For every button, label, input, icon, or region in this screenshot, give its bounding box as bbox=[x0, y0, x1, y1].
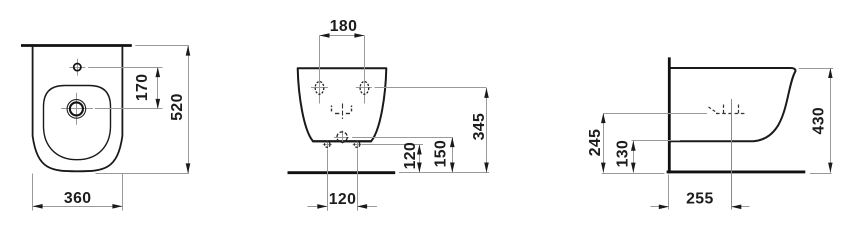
basin inner outline bbox=[44, 86, 111, 160]
floor line middle (thick) bbox=[288, 171, 396, 174]
hole level extension bbox=[375, 87, 487, 89]
faucet hole centerlines bbox=[69, 67, 85, 69]
dim 255 line with outside arrows bbox=[651, 206, 669, 208]
svg-text:130: 130 bbox=[615, 140, 632, 168]
svg-text:180: 180 bbox=[330, 18, 358, 35]
floor extension right bbox=[399, 172, 489, 174]
svg-text:360: 360 bbox=[64, 190, 92, 207]
dim 170 extension from drain bbox=[95, 108, 163, 110]
dim 520 top extension bbox=[135, 45, 189, 47]
mounting hole right cross bbox=[356, 87, 372, 89]
mounting hole left bbox=[315, 82, 324, 95]
wall line (thick) bbox=[21, 44, 132, 47]
svg-text:150: 150 bbox=[432, 140, 449, 168]
bidet outline front view bbox=[298, 68, 387, 141]
hidden drain dashes side bbox=[709, 105, 747, 114]
svg-text:120: 120 bbox=[329, 191, 357, 208]
dim 120 bottom extension left bbox=[327, 149, 329, 210]
svg-text:430: 430 bbox=[810, 107, 827, 135]
svg-text:170: 170 bbox=[134, 74, 151, 102]
svg-text:255: 255 bbox=[686, 190, 714, 207]
wall line (thick vertical) bbox=[668, 57, 671, 173]
svg-text:245: 245 bbox=[587, 129, 604, 157]
dim 150 line bbox=[452, 137, 454, 172]
dim 360 line bbox=[33, 206, 123, 208]
bidet profile side view bbox=[669, 68, 795, 141]
dim 180 extension right bbox=[364, 36, 366, 104]
drain vertical centerline / 255 extension right bbox=[731, 99, 733, 210]
mounting hole left cross bbox=[311, 87, 328, 89]
dim 170 line bbox=[157, 67, 159, 109]
dim 430 top extension bbox=[799, 68, 833, 70]
drain outer circle bbox=[67, 100, 86, 119]
drain bold circle bbox=[70, 102, 83, 115]
dim 120 bottom extension right bbox=[357, 149, 359, 210]
dim 345 line bbox=[486, 88, 488, 173]
bottom fixing hole right bbox=[353, 141, 362, 149]
dim 120 vertical line bbox=[419, 145, 421, 173]
svg-text:120: 120 bbox=[402, 142, 419, 170]
255 extension at wall bbox=[668, 175, 670, 210]
bottom hole level extension bbox=[362, 144, 423, 146]
hidden water inlet dashes bbox=[332, 104, 352, 120]
dim 130 line bbox=[633, 141, 635, 173]
dim 180 line bbox=[320, 35, 365, 37]
svg-text:520: 520 bbox=[169, 93, 186, 121]
bottom edge bold bbox=[313, 140, 372, 142]
faucet hole bbox=[74, 64, 81, 71]
dim 430 line bbox=[830, 68, 832, 173]
drain level extension bbox=[352, 137, 452, 139]
dim 120 bottom line with outside arrows bbox=[308, 206, 328, 208]
bottom fixing hole left bbox=[323, 141, 332, 149]
dim 360 extension right bbox=[122, 174, 124, 211]
drain front dashed circle bbox=[337, 132, 347, 142]
drain front centerlines bbox=[334, 137, 349, 139]
dim 430 bottom extension bbox=[810, 173, 832, 175]
floor bottom extension left bbox=[602, 173, 665, 175]
dim 245 line bbox=[603, 113, 605, 173]
drain level extension left bbox=[603, 113, 707, 115]
drain centerlines bbox=[61, 108, 93, 110]
bottom edge level extension bbox=[632, 140, 681, 142]
floor line (thick horizontal) bbox=[667, 170, 806, 173]
bidet outline top view bbox=[33, 47, 123, 172]
dim 520 bottom extension bbox=[96, 173, 189, 175]
svg-text:345: 345 bbox=[471, 113, 488, 141]
dim 520 line bbox=[188, 46, 190, 174]
mounting hole right bbox=[360, 82, 369, 95]
dim 180 extension left bbox=[319, 36, 321, 104]
dim 170 extension from hole bbox=[88, 67, 162, 69]
dim 360 extension left bbox=[32, 174, 34, 211]
